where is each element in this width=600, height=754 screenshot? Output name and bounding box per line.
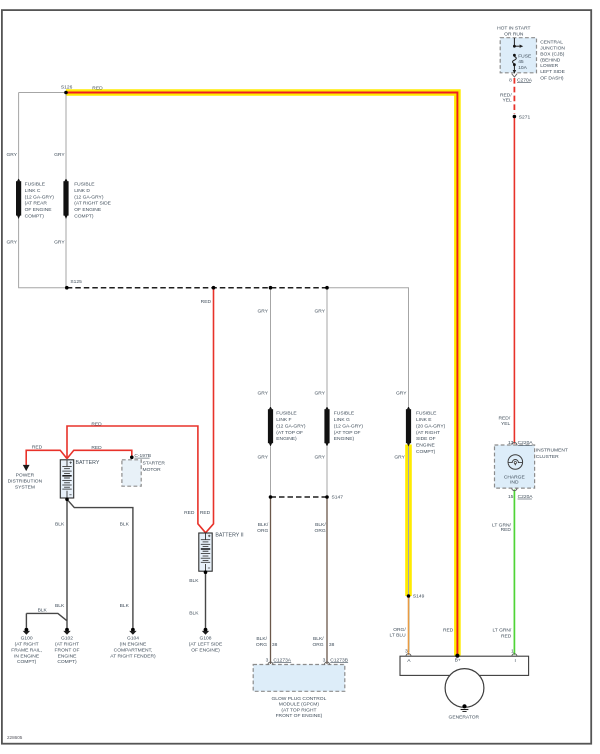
svg-text:GRY: GRY <box>314 390 325 396</box>
svg-text:(AT REAR: (AT REAR <box>25 201 48 207</box>
svg-text:RED: RED <box>91 445 102 451</box>
svg-text:RED: RED <box>200 510 211 516</box>
svg-text:BLK: BLK <box>120 603 130 609</box>
svg-text:RED: RED <box>184 510 195 516</box>
svg-text:LINK G: LINK G <box>334 417 350 423</box>
svg-text:G104: G104 <box>127 636 139 642</box>
svg-text:3: 3 <box>266 658 269 664</box>
svg-text:FUSIBLE: FUSIBLE <box>416 411 437 417</box>
svg-text:IND: IND <box>510 480 519 486</box>
svg-text:FUSIBLE: FUSIBLE <box>74 182 95 188</box>
svg-text:BLK: BLK <box>55 521 65 527</box>
svg-text:GRY: GRY <box>314 308 325 314</box>
svg-text:COMPT): COMPT) <box>57 659 77 665</box>
svg-text:ORG: ORG <box>256 642 267 648</box>
svg-text:INSTRUMENT: INSTRUMENT <box>536 448 568 454</box>
svg-text:(12 GA-GRY): (12 GA-GRY) <box>334 423 364 429</box>
svg-text:C220A: C220A <box>518 440 534 446</box>
svg-text:BLK/: BLK/ <box>313 636 324 642</box>
svg-text:S271: S271 <box>519 115 531 121</box>
svg-text:BATTERY II: BATTERY II <box>215 533 243 539</box>
svg-text:(20 GA-GRY): (20 GA-GRY) <box>416 423 446 429</box>
svg-text:FUSIBLE: FUSIBLE <box>334 411 355 417</box>
svg-text:GRY: GRY <box>314 454 325 460</box>
svg-text:GLOW PLUG CONTROL: GLOW PLUG CONTROL <box>271 696 326 702</box>
svg-text:FUSIBLE: FUSIBLE <box>276 411 297 417</box>
svg-text:DISTRIBUTION: DISTRIBUTION <box>8 479 43 485</box>
svg-text:BLK: BLK <box>38 607 48 613</box>
svg-text:FRONT OF: FRONT OF <box>55 647 80 653</box>
svg-text:LOWER: LOWER <box>540 63 558 69</box>
svg-text:(AT RIGHT SIDE: (AT RIGHT SIDE <box>74 201 111 207</box>
svg-text:FRAME RAIL,: FRAME RAIL, <box>11 647 42 653</box>
svg-text:BLK/: BLK/ <box>256 636 267 642</box>
svg-text:BLK/: BLK/ <box>258 522 269 528</box>
svg-text:IN ENGINE: IN ENGINE <box>14 653 40 659</box>
svg-text:(AT RIGHT: (AT RIGHT <box>55 642 79 648</box>
svg-text:(AT LEFT SIDE: (AT LEFT SIDE <box>189 642 223 648</box>
svg-text:YEL: YEL <box>502 97 512 103</box>
svg-text:FRONT OF ENGINE): FRONT OF ENGINE) <box>276 713 323 719</box>
svg-text:C220A: C220A <box>518 494 534 500</box>
svg-text:228605: 228605 <box>7 735 23 740</box>
svg-text:CENTRAL: CENTRAL <box>540 40 563 46</box>
svg-text:C270A: C270A <box>517 77 533 83</box>
svg-text:(12 GA-GRY): (12 GA-GRY) <box>276 423 306 429</box>
svg-text:(AT RIGHT: (AT RIGHT <box>15 642 39 648</box>
svg-text:BLK: BLK <box>55 603 65 609</box>
svg-text:OF ENGINE): OF ENGINE) <box>191 647 220 653</box>
svg-text:GENERATOR: GENERATOR <box>449 714 480 720</box>
svg-text:RED: RED <box>91 421 102 427</box>
svg-text:S126: S126 <box>61 84 73 90</box>
svg-text:G102: G102 <box>61 636 73 642</box>
svg-text:S149: S149 <box>413 594 425 600</box>
svg-text:ENGINE: ENGINE <box>58 653 77 659</box>
svg-text:B+: B+ <box>455 658 461 664</box>
svg-text:C1273A: C1273A <box>273 658 291 664</box>
svg-text:GRY: GRY <box>6 152 17 158</box>
svg-text:FUSIBLE: FUSIBLE <box>25 182 46 188</box>
svg-text:COMPT): COMPT) <box>17 659 37 665</box>
svg-text:COMPT): COMPT) <box>74 214 94 220</box>
svg-text:GRY: GRY <box>6 239 17 245</box>
svg-text:RED/: RED/ <box>499 415 511 421</box>
svg-text:ORG: ORG <box>315 528 326 534</box>
svg-text:C1273B: C1273B <box>330 658 348 664</box>
svg-text:(AT TOP RIGHT: (AT TOP RIGHT <box>281 707 316 713</box>
svg-text:ORG: ORG <box>312 642 323 648</box>
svg-text:3: 3 <box>405 648 408 654</box>
svg-text:10A: 10A <box>518 65 527 71</box>
svg-text:COMPT): COMPT) <box>416 449 436 455</box>
svg-text:OF ENGINE: OF ENGINE <box>25 207 53 213</box>
svg-text:(BEHIND: (BEHIND <box>540 57 561 63</box>
svg-text:GRY: GRY <box>396 390 407 396</box>
svg-text:GRY: GRY <box>257 308 268 314</box>
svg-text:LINK D: LINK D <box>74 188 90 194</box>
svg-text:(AT TOP OF: (AT TOP OF <box>276 430 303 436</box>
svg-text:RED: RED <box>32 445 43 451</box>
svg-text:G108: G108 <box>200 636 212 642</box>
svg-text:ENGINE): ENGINE) <box>334 436 355 442</box>
svg-text:38: 38 <box>272 642 278 648</box>
svg-text:MODULE (GPCM): MODULE (GPCM) <box>279 702 320 708</box>
svg-text:BATTERY: BATTERY <box>76 460 100 466</box>
svg-text:RED: RED <box>501 633 512 639</box>
svg-text:G100: G100 <box>21 636 33 642</box>
svg-text:OF DASH): OF DASH) <box>540 76 564 82</box>
svg-text:SYSTEM: SYSTEM <box>15 485 35 491</box>
svg-text:LEFT SIDE: LEFT SIDE <box>540 69 565 75</box>
svg-text:C-197B: C-197B <box>134 453 151 459</box>
svg-text:RED: RED <box>443 628 454 634</box>
svg-text:8: 8 <box>509 77 512 83</box>
svg-text:RED: RED <box>201 299 212 305</box>
svg-text:15: 15 <box>508 494 514 500</box>
svg-text:BLK: BLK <box>189 578 199 584</box>
svg-text:LINK F: LINK F <box>276 417 291 423</box>
svg-text:OF ENGINE: OF ENGINE <box>74 207 102 213</box>
svg-text:ENGINE): ENGINE) <box>276 436 297 442</box>
svg-text:45: 45 <box>518 59 524 65</box>
svg-text:GRY: GRY <box>257 390 268 396</box>
svg-text:COMPARTMENT,: COMPARTMENT, <box>114 647 153 653</box>
svg-text:AT RIGHT FENDER): AT RIGHT FENDER) <box>110 653 156 659</box>
svg-text:JUNCTION: JUNCTION <box>540 46 565 52</box>
svg-text:(IN ENGINE: (IN ENGINE <box>120 642 147 648</box>
svg-text:LINK C: LINK C <box>25 188 41 194</box>
svg-text:STARTER: STARTER <box>143 461 166 467</box>
svg-text:BLK/: BLK/ <box>315 522 326 528</box>
svg-text:13: 13 <box>508 440 514 446</box>
svg-text:BOX (CJB): BOX (CJB) <box>540 51 565 57</box>
svg-text:1: 1 <box>511 648 514 654</box>
svg-text:38: 38 <box>329 642 335 648</box>
svg-text:(12 GA-GRY): (12 GA-GRY) <box>74 194 104 200</box>
svg-text:LT BLU: LT BLU <box>390 633 407 639</box>
svg-text:GRY: GRY <box>394 454 405 460</box>
svg-text:OR RUN: OR RUN <box>504 32 524 38</box>
svg-text:FUSE: FUSE <box>518 53 532 59</box>
svg-text:MOTOR: MOTOR <box>143 467 162 473</box>
svg-text:S147: S147 <box>332 494 344 500</box>
svg-text:LT GRN/: LT GRN/ <box>492 628 511 634</box>
svg-text:BLK: BLK <box>120 521 130 527</box>
svg-text:(AT TOP OF: (AT TOP OF <box>334 430 361 436</box>
svg-text:BLK: BLK <box>189 611 199 617</box>
svg-text:S125: S125 <box>70 279 82 285</box>
svg-text:HOT IN START: HOT IN START <box>497 26 530 32</box>
svg-text:SIDE OF: SIDE OF <box>416 436 436 442</box>
svg-text:YEL: YEL <box>501 421 511 427</box>
svg-text:ENGINE: ENGINE <box>416 443 435 449</box>
svg-text:3: 3 <box>323 658 326 664</box>
svg-text:I: I <box>515 658 516 664</box>
svg-text:RED: RED <box>501 527 512 533</box>
svg-text:POWER: POWER <box>16 473 35 479</box>
svg-text:GRY: GRY <box>54 239 65 245</box>
svg-text:(12 GA-GRY): (12 GA-GRY) <box>25 194 55 200</box>
svg-text:ORG/: ORG/ <box>393 627 406 633</box>
svg-text:(AT RIGHT: (AT RIGHT <box>416 430 440 436</box>
svg-text:GRY: GRY <box>54 152 65 158</box>
svg-text:COMPT): COMPT) <box>25 214 45 220</box>
svg-text:CLUSTER: CLUSTER <box>536 454 559 460</box>
svg-text:RED: RED <box>92 85 103 91</box>
svg-text:ORG: ORG <box>257 528 268 534</box>
svg-text:LINK E: LINK E <box>416 417 432 423</box>
svg-text:GRY: GRY <box>257 454 268 460</box>
